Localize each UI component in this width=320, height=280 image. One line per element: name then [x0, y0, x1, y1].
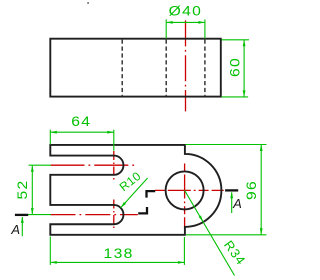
svg-text:96: 96 — [245, 180, 260, 200]
svg-text:A: A — [232, 196, 242, 211]
svg-text:A: A — [10, 222, 20, 237]
svg-text:Ø40: Ø40 — [169, 4, 203, 19]
svg-text:64: 64 — [71, 114, 91, 129]
svg-text:60: 60 — [228, 57, 243, 77]
svg-text:138: 138 — [104, 247, 134, 262]
svg-text:52: 52 — [16, 179, 31, 199]
